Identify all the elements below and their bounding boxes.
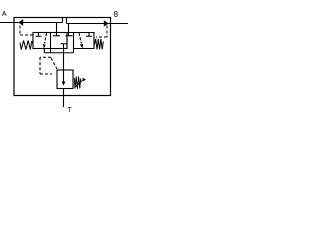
- spring S2 (right valve): [95, 39, 104, 50]
- blocked port T-bar (A branch): [53, 35, 60, 37]
- blocked port T2 at V1 bottom: [61, 44, 67, 49]
- spring S3 (pressure valve): [74, 77, 80, 89]
- valve V2 divider: [73, 33, 75, 49]
- manifold boundary: [14, 18, 111, 96]
- valve V1 divider: [50, 33, 52, 49]
- wire: V2 divider stub to bridge: [73, 49, 75, 53]
- label T: [68, 107, 72, 111]
- label B: [115, 12, 118, 17]
- V1 dashed flow arrow: [45, 33, 47, 44]
- valve V2 body: [67, 33, 94, 49]
- V3 internal flow arrow: [63, 70, 65, 82]
- wire: V1 bottom port to bridge: [43, 49, 45, 53]
- node B riser to top edge: [66, 18, 68, 24]
- pilot line X2 from B (dashed): [96, 26, 107, 38]
- wire: main line to pressure valve: [63, 49, 65, 71]
- wire A to valve V1 top port: [56, 23, 58, 36]
- label A: [2, 11, 6, 16]
- blocked port T-bar (B branch): [66, 35, 73, 37]
- V2 dashed flow arrow: [79, 33, 81, 44]
- wire: V1 divider stub to bridge: [50, 49, 52, 53]
- enclosure (dashed box) of pressure valve pilot: [40, 57, 52, 74]
- wire B to valve V2 top port: [68, 24, 70, 36]
- blocked port T1 inside V1 left cell: [36, 33, 42, 37]
- wire: bridge line under valves: [44, 52, 73, 54]
- pilot line X1 from A (dashed): [20, 26, 33, 36]
- pressure valve V3 body: [57, 70, 73, 89]
- adjustment arrow across spring S3: [75, 80, 84, 88]
- valve V1 body: [33, 33, 67, 49]
- node A riser to top edge: [62, 18, 64, 23]
- port B line: [67, 23, 129, 25]
- wire: V3 outlet to port T: [63, 89, 65, 108]
- flow arrow on line A: [18, 19, 23, 25]
- spring S1 (left valve): [20, 41, 33, 50]
- port A line: [0, 22, 63, 24]
- flow arrow on line B: [104, 20, 109, 26]
- blocked port T3 inside V2: [86, 33, 92, 37]
- dashed diagonal link: [51, 58, 57, 69]
